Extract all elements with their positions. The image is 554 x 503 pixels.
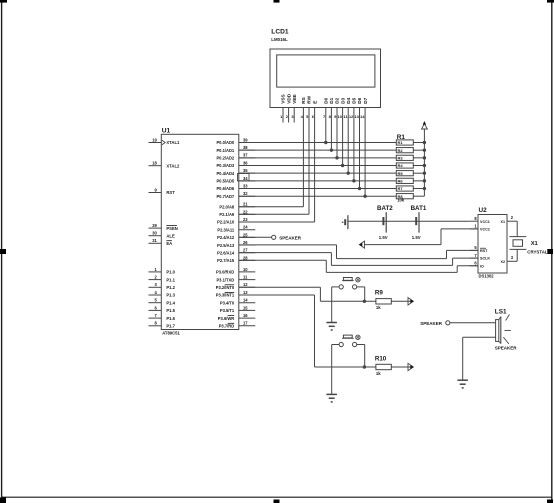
U1 pin 8 P1.7 <box>149 325 162 327</box>
svg-text:D2: D2 <box>335 97 340 103</box>
U1 pin 6 P1.5 <box>149 309 162 311</box>
svg-text:4: 4 <box>155 290 158 295</box>
svg-text:R9: R9 <box>375 290 383 297</box>
U1 pin 31 EA <box>149 242 162 244</box>
U1 pin 15 P3.5/T1 <box>239 309 256 311</box>
wire R1 element 6 to rail <box>413 180 424 182</box>
svg-text:18: 18 <box>152 161 157 166</box>
R1 resistor element 3 <box>396 155 413 160</box>
svg-text:SCLK: SCLK <box>480 257 490 261</box>
U1 pin 5 P1.4 <box>149 302 162 304</box>
net arrow right (R9) <box>408 298 413 305</box>
wire R1 element 8 to rail <box>413 195 424 197</box>
wire U2 X2 to crystal <box>516 249 518 261</box>
wire R1 element 4 to rail <box>413 165 424 167</box>
svg-text:P3.3/INT1: P3.3/INT1 <box>216 293 235 298</box>
wire R1 element 5 to rail <box>413 172 424 174</box>
svg-text:3: 3 <box>511 255 514 260</box>
wire U1 P0.1 data line <box>239 149 396 151</box>
svg-text:P2.2/A10: P2.2/A10 <box>217 220 235 225</box>
svg-text:P2.4/A12: P2.4/A12 <box>217 235 235 240</box>
junction button1/R9 <box>363 300 366 303</box>
wire LCD D1 drop <box>330 108 332 151</box>
junction D6/P0.6 <box>358 187 361 190</box>
U1 pin 37 P0.2/AD2 <box>239 157 256 159</box>
svg-text:1k: 1k <box>376 371 381 376</box>
wire R10 to arrow <box>391 366 411 368</box>
svg-text:SPEAKER: SPEAKER <box>279 235 302 240</box>
frame mark right-middle <box>547 249 553 254</box>
U2 pin 8 VCC1 <box>470 220 478 222</box>
wire U1 P0.2 data line <box>239 157 396 159</box>
svg-text:D7: D7 <box>363 97 368 103</box>
junction R1 rail row 7 <box>423 187 426 190</box>
svg-text:D6: D6 <box>357 97 362 103</box>
svg-text:D5: D5 <box>352 97 357 103</box>
svg-text:X1: X1 <box>500 220 505 224</box>
svg-text:P1.4: P1.4 <box>166 300 175 305</box>
speaker terminal 2 <box>446 321 450 325</box>
junction R1 rail row 3 <box>423 156 426 159</box>
svg-text:DS1302: DS1302 <box>479 274 495 279</box>
wire button1 right to junction <box>357 286 365 288</box>
page border left line <box>1 1 3 497</box>
LS1 sound rays <box>506 314 510 320</box>
svg-text:1: 1 <box>474 224 477 229</box>
svg-text:X1: X1 <box>531 241 539 247</box>
svg-text:P2.1/A9: P2.1/A9 <box>219 212 235 217</box>
wire button1 left to ground rail <box>332 286 339 288</box>
U1 pin 38 P0.1/AD1 <box>239 149 256 151</box>
wire U1 P0.7 data line <box>239 195 396 197</box>
crystal X1 top plate <box>510 236 527 238</box>
svg-text:XTAL2: XTAL2 <box>166 163 180 168</box>
svg-text:1k: 1k <box>376 305 381 310</box>
wire U2 X1 to crystal <box>516 221 518 236</box>
junction R1 rail row 2 <box>423 148 426 151</box>
svg-text:P1.5: P1.5 <box>166 308 175 313</box>
U2 pin 1 VCC2 <box>470 228 478 230</box>
ground button 1 <box>326 322 337 324</box>
U1 pin 19 XTAL1 <box>149 142 162 144</box>
svg-text:19: 19 <box>152 137 157 142</box>
wire U1 P0.0 data line <box>239 142 396 144</box>
LCD1 display window <box>277 55 375 87</box>
wire terminal to LS1 <box>450 322 496 324</box>
U1 pin 14 P3.4/T0 <box>239 302 256 304</box>
svg-text:7: 7 <box>155 313 158 318</box>
svg-text:2: 2 <box>511 215 514 220</box>
svg-text:3: 3 <box>155 282 158 287</box>
push button 1 <box>343 278 352 281</box>
svg-text:5: 5 <box>474 245 477 250</box>
svg-text:VSS: VSS <box>281 94 286 103</box>
svg-text:RW: RW <box>307 95 312 103</box>
svg-text:AT89C51: AT89C51 <box>162 330 180 335</box>
U2 pin 3 X2 <box>507 260 517 262</box>
svg-text:10k: 10k <box>397 198 405 203</box>
svg-text:13: 13 <box>243 290 248 295</box>
svg-text:31: 31 <box>152 238 157 243</box>
U1 pin 29 PSEN <box>149 227 162 229</box>
wire R1 element 3 to rail <box>413 157 424 159</box>
svg-text:D3: D3 <box>340 97 345 103</box>
LCD1 VDD pin stub <box>288 108 290 123</box>
wire P2.6 to U2 SCLK <box>239 252 332 254</box>
wire U1 P0.4 data line <box>239 172 396 174</box>
wire U1 P3.2 to button1 <box>239 286 321 288</box>
crystal X1 bottom plate <box>510 248 527 250</box>
svg-text:P1.7: P1.7 <box>166 324 175 329</box>
svg-text:D4: D4 <box>346 97 351 103</box>
svg-text:1: 1 <box>155 267 158 272</box>
svg-text:11: 11 <box>343 114 348 119</box>
wire R9 to arrow <box>391 300 411 302</box>
svg-text:P2.7/A15: P2.7/A15 <box>217 258 235 263</box>
svg-text:P3.7/RD: P3.7/RD <box>219 324 235 329</box>
ground button 2 <box>326 393 337 395</box>
svg-text:P0.6/AD6: P0.6/AD6 <box>216 186 234 191</box>
svg-text:9: 9 <box>155 187 158 192</box>
svg-text:BAT1: BAT1 <box>411 205 427 212</box>
svg-text:15: 15 <box>243 305 248 310</box>
junction R1 rail row 5 <box>423 171 426 174</box>
svg-text:BAT2: BAT2 <box>377 205 393 212</box>
svg-text:37: 37 <box>243 153 248 158</box>
LCD1 body <box>270 49 381 108</box>
battery minus tick <box>342 222 344 223</box>
junction D4/P0.4 <box>347 171 350 174</box>
net arrow right (R10) <box>408 363 413 370</box>
svg-text:14: 14 <box>243 298 248 303</box>
U1 pin 28 P2.7/A15 <box>239 259 256 261</box>
svg-text:12: 12 <box>243 282 248 287</box>
svg-text:24: 24 <box>243 225 248 230</box>
U1 pin 23 P2.2/A10 <box>239 221 256 223</box>
svg-text:P3.4/T0: P3.4/T0 <box>220 300 235 305</box>
U1 pin 30 ALE <box>149 235 162 237</box>
U1 pin 13 P3.3/INT1 <box>239 294 256 296</box>
U1 XTAL1 clock chevron <box>162 140 165 145</box>
battery plates BAT2 <box>385 212 387 232</box>
U1 pin 7 P1.6 <box>149 317 162 319</box>
wire button2 right to junction <box>357 344 365 346</box>
svg-text:P0.4/AD4: P0.4/AD4 <box>216 171 234 176</box>
wire LCD D5 drop <box>353 108 355 181</box>
svg-text:23: 23 <box>243 217 248 222</box>
svg-text:7: 7 <box>474 253 477 258</box>
wire U1 P0.5 data line <box>239 180 396 182</box>
svg-text:VCC1: VCC1 <box>480 220 490 224</box>
svg-text:RS: RS <box>301 97 306 104</box>
svg-text:26: 26 <box>243 240 248 245</box>
U1 pin 25 P2.4/A12 <box>239 236 256 238</box>
wire LCD D2 drop <box>336 108 338 158</box>
svg-text:R7: R7 <box>398 186 404 191</box>
LCD1 VSS pin stub <box>282 108 284 123</box>
svg-text:P0.5/AD5: P0.5/AD5 <box>216 179 234 184</box>
R1 resistor element 8 <box>396 194 413 199</box>
svg-text:R4: R4 <box>398 163 404 168</box>
svg-text:LM016L: LM016L <box>271 37 288 42</box>
wire U1 P2.x to LCD RS <box>239 206 304 208</box>
U1 pin 11 P3.1/TXD <box>239 279 256 281</box>
U1 pin 26 P2.5/A13 <box>239 244 256 246</box>
svg-text:U1: U1 <box>162 128 171 135</box>
junction D2/P0.2 <box>335 156 338 159</box>
page border bottom line <box>2 496 552 498</box>
svg-text:32: 32 <box>243 191 248 196</box>
svg-text:P0.7/AD7: P0.7/AD7 <box>216 194 234 199</box>
junction D5/P0.5 <box>352 179 355 182</box>
U1 pin 27 P2.6/A14 <box>239 252 256 254</box>
U1 pin 34 P0.5/AD5 <box>239 180 256 182</box>
svg-text:16: 16 <box>243 313 248 318</box>
junction D7/P0.7 <box>363 194 366 197</box>
wire LCD D3 drop <box>342 108 344 166</box>
wire LS1 bottom to ground <box>463 336 496 338</box>
svg-text:P1.6: P1.6 <box>166 316 175 321</box>
U2 pin 2 X1 <box>507 220 517 222</box>
U2 pin 6 IO <box>470 265 478 267</box>
frame mark left-middle <box>0 249 6 254</box>
push button 2 <box>343 335 352 338</box>
wire U1 P2.4 to speaker terminal <box>239 236 272 238</box>
speaker net terminal <box>272 235 276 239</box>
svg-text:P0.1/AD1: P0.1/AD1 <box>216 148 234 153</box>
wire R1 element 2 to rail <box>413 149 424 151</box>
frame mark top-right <box>547 0 554 3</box>
R1 resistor element 2 <box>396 148 413 153</box>
power symbol VCC arrow <box>422 124 428 129</box>
svg-text:13: 13 <box>354 114 359 119</box>
R1 resistor element 5 <box>396 171 413 176</box>
net arrow left (VCC2) <box>359 241 364 248</box>
U1 pin 36 P0.3/AD3 <box>239 165 256 167</box>
R1 resistor element 4 <box>396 163 413 168</box>
svg-text:36: 36 <box>243 160 248 165</box>
svg-text:10: 10 <box>243 267 248 272</box>
junction D1/P0.1 <box>330 148 333 151</box>
page border right line <box>551 1 553 500</box>
U1 pin 35 P0.4/AD4 <box>239 172 256 174</box>
svg-text:SPEAKER: SPEAKER <box>495 346 518 351</box>
svg-text:P3.6/WR: P3.6/WR <box>218 316 234 321</box>
svg-text:ALE: ALE <box>166 233 175 238</box>
svg-text:IO: IO <box>480 264 484 268</box>
wire R1 element 1 to rail <box>413 142 424 144</box>
wire U1 P2.x to LCD RW <box>239 213 309 215</box>
U1 pin 18 XTAL2 <box>149 165 162 167</box>
wire LCD D7 drop <box>364 108 366 197</box>
R1 resistor element 7 <box>396 186 413 191</box>
LCD1 VEE pin stub <box>293 108 295 123</box>
svg-text:RST: RST <box>480 249 488 253</box>
svg-text:P2.5/A13: P2.5/A13 <box>217 243 235 248</box>
svg-text:11: 11 <box>243 275 248 280</box>
svg-text:1.5V: 1.5V <box>412 235 421 240</box>
wire LCD D0 drop <box>325 108 327 143</box>
wire U1 P0.3 data line <box>239 165 396 167</box>
wire U1 P2.x to LCD E <box>239 221 315 223</box>
junction D3/P0.3 <box>341 164 344 167</box>
LS1 speaker body <box>496 320 499 342</box>
wire battery chain to U2 VCC1 <box>348 220 470 222</box>
wire U2 VCC2 <box>441 228 478 230</box>
svg-text:R3: R3 <box>398 156 404 161</box>
svg-text:5: 5 <box>155 298 158 303</box>
svg-text:P3.2/INT0: P3.2/INT0 <box>216 285 235 290</box>
wire P2.5 to U2 RST <box>239 244 337 246</box>
wire R1 element 7 to rail <box>413 188 424 190</box>
crystal X1 body <box>513 240 523 247</box>
U1 pin 33 P0.6/AD6 <box>239 188 256 190</box>
svg-text:2: 2 <box>155 275 158 280</box>
U1 pin 1 P1.0 <box>149 271 162 273</box>
svg-text:R2: R2 <box>398 148 404 153</box>
U1 pin 24 P2.3/A11 <box>239 229 256 231</box>
svg-text:X2: X2 <box>500 260 505 264</box>
R1 resistor element 1 <box>396 140 413 145</box>
U1 pin 3 P1.2 <box>149 286 162 288</box>
U1 pin 34 highlight box <box>238 174 250 181</box>
wire LCD D6 drop <box>359 108 361 189</box>
junction button2/R10 <box>363 365 366 368</box>
U1 pin 21 P2.0/A8 <box>239 206 256 208</box>
U1 pin 16 P3.6/WR <box>239 317 256 319</box>
svg-text:6: 6 <box>155 305 158 310</box>
battery plates BAT1 <box>418 212 420 232</box>
svg-text:1.5V: 1.5V <box>379 235 388 240</box>
resistor R10 <box>376 364 391 369</box>
junction R1 rail row 4 <box>423 164 426 167</box>
ground LS1 <box>457 379 468 381</box>
svg-text:P1.2: P1.2 <box>166 285 175 290</box>
svg-text:10: 10 <box>338 114 343 119</box>
svg-text:P3.5/T1: P3.5/T1 <box>220 308 235 313</box>
U1 pin 17 P3.7/RD <box>239 325 256 327</box>
battery plates end cell <box>347 215 349 229</box>
U1 pin 12 P3.2/INT0 <box>239 286 256 288</box>
junction D0/P0.0 <box>324 141 327 144</box>
svg-text:P0.2/AD2: P0.2/AD2 <box>216 156 234 161</box>
svg-text:6: 6 <box>474 261 477 266</box>
wire U1 P0.6 data line <box>239 188 396 190</box>
svg-text:LS1: LS1 <box>495 308 507 315</box>
svg-text:R5: R5 <box>398 171 404 176</box>
svg-text:14: 14 <box>360 114 365 119</box>
svg-text:E: E <box>312 101 317 104</box>
U1 pin 39 P0.0/AD0 <box>239 142 256 144</box>
svg-text:34: 34 <box>243 176 248 181</box>
R1 power rail <box>423 129 425 196</box>
U1 pin 4 P1.3 <box>149 294 162 296</box>
svg-text:D1: D1 <box>329 97 334 103</box>
svg-text:39: 39 <box>243 137 248 142</box>
svg-text:D0: D0 <box>324 97 329 103</box>
svg-text:21: 21 <box>243 202 248 207</box>
U2 pin 7 SCLK <box>470 257 478 259</box>
junction R1 rail row 6 <box>423 179 426 182</box>
svg-text:P1.1: P1.1 <box>166 277 175 282</box>
resistor R9 <box>376 299 391 304</box>
svg-text:P1.0: P1.0 <box>166 270 175 275</box>
svg-text:17: 17 <box>243 321 248 326</box>
frame mark top-center <box>274 0 280 3</box>
svg-text:12: 12 <box>349 114 354 119</box>
svg-text:P1.3: P1.3 <box>166 293 175 298</box>
svg-text:VCC2: VCC2 <box>480 228 490 232</box>
svg-text:EA: EA <box>166 241 172 246</box>
svg-text:P2.6/A14: P2.6/A14 <box>217 250 235 255</box>
svg-text:VDD: VDD <box>286 93 291 104</box>
svg-text:22: 22 <box>243 209 248 214</box>
U2 pin 5 RST <box>470 249 478 251</box>
svg-text:R1: R1 <box>398 140 404 145</box>
svg-text:U2: U2 <box>479 207 488 214</box>
svg-text:35: 35 <box>243 168 248 173</box>
U1 pin 22 P2.1/A9 <box>239 213 256 215</box>
svg-text:LCD1: LCD1 <box>271 28 289 35</box>
svg-text:SPEAKER: SPEAKER <box>420 321 443 326</box>
U2 body <box>478 215 507 274</box>
svg-text:RST: RST <box>166 190 175 195</box>
R1 resistor element 6 <box>396 178 413 183</box>
U1 pin 9 RST <box>149 192 162 194</box>
svg-text:P3.1/TXD: P3.1/TXD <box>216 277 234 282</box>
frame mark bottom-right <box>547 500 553 503</box>
svg-text:P0.3/AD3: P0.3/AD3 <box>216 163 234 168</box>
svg-text:28: 28 <box>243 255 248 260</box>
frame mark bottom-left <box>0 497 6 503</box>
U1 body <box>161 134 239 329</box>
svg-text:38: 38 <box>243 145 248 150</box>
frame mark top-left <box>0 0 7 3</box>
frame mark bottom-center <box>274 500 280 503</box>
svg-text:P0.0/AD0: P0.0/AD0 <box>216 140 234 145</box>
svg-text:8: 8 <box>155 321 158 326</box>
svg-text:8: 8 <box>474 216 477 221</box>
svg-text:PSEN: PSEN <box>166 226 177 231</box>
svg-text:R6: R6 <box>398 179 404 184</box>
svg-text:R10: R10 <box>375 355 387 362</box>
svg-text:VEE: VEE <box>292 94 297 103</box>
wire button2 left to ground rail <box>332 344 339 346</box>
junction R1 rail row 1 <box>423 141 426 144</box>
svg-text:30: 30 <box>152 231 157 236</box>
svg-text:33: 33 <box>243 183 248 188</box>
wire U1 P3.3 to button2 <box>239 294 315 296</box>
U1 pin 2 P1.1 <box>149 279 162 281</box>
wire P2.7 to U2 IO <box>239 259 326 261</box>
svg-text:27: 27 <box>243 248 248 253</box>
U1 pin 10 P3.0/RXD <box>239 271 256 273</box>
svg-text:P2.3/A11: P2.3/A11 <box>217 227 235 232</box>
svg-text:P2.0/A8: P2.0/A8 <box>219 204 235 209</box>
svg-text:25: 25 <box>243 232 248 237</box>
wire LCD D4 drop <box>347 108 349 174</box>
svg-text:CRYSTAL: CRYSTAL <box>527 249 548 254</box>
svg-text:XTAL1: XTAL1 <box>166 140 180 145</box>
svg-text:P3.0/RXD: P3.0/RXD <box>216 270 234 275</box>
svg-text:29: 29 <box>152 223 157 228</box>
U1 pin 32 P0.7/AD7 <box>239 195 256 197</box>
